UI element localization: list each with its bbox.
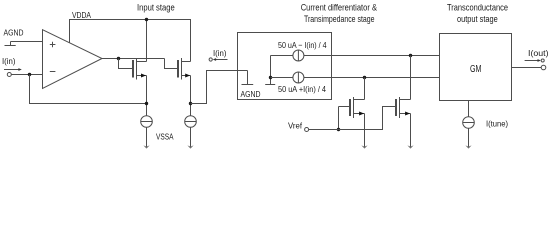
wire I(tune) down to ground arrow [468,128,470,147]
wire M2 gate link [165,59,178,69]
current source CS1 [293,50,304,61]
junction CS1 line / M4 drain [409,54,412,57]
wire M3 drain up [364,78,366,100]
transistor M3 channel bar [353,97,355,118]
svg-text:50 uA − I(in) / 4: 50 uA − I(in) / 4 [278,40,327,50]
transistor M1 source stub with arrow [137,75,147,77]
differentiator stage box [238,33,332,100]
svg-text:Transimpedance stage: Transimpedance stage [304,14,375,24]
junction output / M1 gate tap [117,57,120,60]
output terminal circle [541,65,546,70]
svg-text:50 uA +I(in) / 4: 50 uA +I(in) / 4 [278,84,326,94]
wire AGND to op-amp + input [11,41,44,43]
wire GM output [512,67,542,69]
junction node feedback / inverting input [28,73,31,76]
wire GM bottom to I(tune) [468,101,470,117]
svg-text:AGND: AGND [241,89,261,99]
svg-text:GM: GM [470,64,482,75]
transistor M3 (NMOS) gate wire [339,106,350,108]
wire M1 drain to VDDA rail [146,20,148,62]
wire bottom current source left [271,77,293,79]
GM block box [440,34,512,101]
transistor M3 source stub with arrow [354,113,365,115]
wire M1 gate tap [119,59,133,69]
wire M4 drain up [410,56,412,100]
transistor M3 drain stub [354,99,365,101]
svg-text:I(tune): I(tune) [486,119,508,129]
transistor M4 drain stub [400,99,411,101]
svg-text:I(out): I(out) [528,48,549,58]
transistor M2 channel bar [181,58,183,80]
transistor M1 channel bar [136,58,138,80]
wire CS2 to GM input B [304,77,440,79]
wire Vref to gates [309,107,396,130]
VDDA rail wire [70,20,191,62]
transistor M4 source stub with arrow [400,113,411,115]
svg-text:I(in): I(in) [213,48,227,58]
transistor M3 gate bar [349,99,351,116]
transistor M2 (PMOS) gate bar [177,60,179,78]
junction VDDA rail / M1 drain [145,18,148,21]
wire op-amp output [102,58,165,60]
svg-text:output stage: output stage [457,14,498,24]
wire top current source left [271,55,293,57]
junction feedback / M1 source / tail source [145,102,148,105]
svg-text:I(in): I(in) [2,56,16,66]
op-amp U1 [43,30,103,89]
wire M1 source down [146,76,148,116]
svg-text:Current differentiator &: Current differentiator & [301,2,377,12]
wire M3 gate down to Vref [338,107,340,130]
svg-text:Input stage: Input stage [137,2,175,12]
ground bar (CS common) [265,84,275,86]
transistor M2 drain stub [182,61,191,63]
svg-text:VSSA: VSSA [156,131,174,141]
svg-text:Vref: Vref [288,121,303,131]
ground stub AGND (differentiator input) [242,71,254,85]
transistor M1 (PMOS) gate bar [132,60,134,78]
transistor M4 (NMOS) gate bar [395,99,397,116]
wire M2 source down [190,76,192,116]
wire feedback loop [30,75,147,104]
current direction arrow I(in) input [4,69,19,71]
transistor M1 drain stub [137,61,147,63]
current source I(tune) [463,117,475,129]
current source tail 1 [141,116,153,128]
wire tail 2 to VSSA arrow [190,127,192,147]
svg-text:AGND: AGND [4,27,24,37]
input terminal circle [7,73,11,77]
junction M2 source node [189,102,192,105]
wire M4 source down to ground arrow [410,114,412,148]
svg-text:VDDA: VDDA [72,10,91,20]
wire M3 source down to ground arrow [364,114,366,148]
current source CS2 [293,72,304,83]
svg-text:Transconductance: Transconductance [447,2,508,12]
current source tail 2 [185,116,197,128]
current annotation arrow I(out) [525,60,538,62]
Vref terminal circle [305,128,309,132]
junction CS2 line / M3 drain [363,76,366,79]
current annotation arrow mid (pointing left into circle) [209,58,212,61]
wire tail 1 to VSSA arrow [146,127,148,147]
ground symbol AGND at non-inverting input [5,42,16,46]
wire CS1 to GM input A [304,55,440,57]
transistor M4 channel bar [399,97,401,118]
junction current source common node [269,76,272,79]
junction Vref / M3 gate [337,128,340,131]
wire current-source common left leg [270,56,272,85]
transistor M2 source stub with arrow [182,75,191,77]
wire M2 output to differentiator stage [191,71,248,104]
wire input terminal to inverting input [11,74,43,76]
